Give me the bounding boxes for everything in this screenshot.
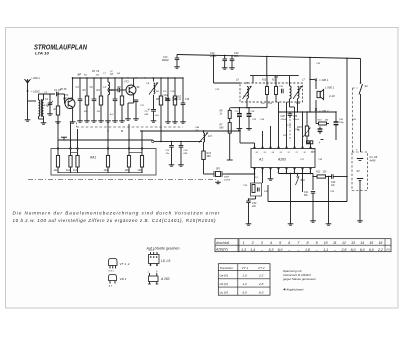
wire antenna to coil <box>28 100 37 102</box>
chain line <box>28 179 218 181</box>
drop rail to L6 <box>289 76 291 83</box>
table Transistor frame <box>218 264 270 296</box>
svg-text:VT 1: VT 1 <box>242 266 249 270</box>
svg-text:L 800 1: L 800 1 <box>325 86 335 90</box>
vertical x94 to y131 <box>93 119 95 131</box>
horizontal wire y112 <box>279 111 336 113</box>
svg-text:A1: A1 <box>258 158 263 162</box>
pin 5 bottom stub <box>286 168 288 174</box>
svg-text:8: 8 <box>306 241 308 245</box>
capacitor C23 elco <box>238 108 240 114</box>
junction dot on left bus <box>160 77 161 78</box>
dot bus x347 junctions <box>346 144 348 146</box>
wire terminal to speaker <box>315 80 317 90</box>
wire into x203 from y131 <box>203 131 205 133</box>
svg-text:1,3: 1,3 <box>241 248 246 252</box>
svg-text:Transistor: Transistor <box>220 266 234 270</box>
svg-text:Uʙ [V]: Uʙ [V] <box>220 274 229 278</box>
table Transistor row line <box>218 269 270 271</box>
pin 7 bottom stub <box>302 168 304 193</box>
table Transistor row line <box>218 286 270 288</box>
wire L5 down <box>246 99 248 108</box>
svg-text:1,2: 1,2 <box>243 282 248 286</box>
table Transistor row line <box>218 278 270 280</box>
svg-text:5: 5 <box>279 241 281 245</box>
pin 8 bottom stub <box>310 168 312 174</box>
wire x328 to ground <box>328 177 330 223</box>
battery dashed box <box>352 152 368 191</box>
svg-text:E B C: E B C <box>109 271 115 273</box>
vertical drop x175 <box>174 78 176 96</box>
resistor R24 in box <box>107 148 109 150</box>
svg-text:1k4: 1k4 <box>104 169 109 172</box>
svg-text:R18: R18 <box>274 77 279 79</box>
resistor R13 <box>203 142 205 151</box>
capacitor C6 <box>93 78 95 99</box>
svg-text:S1: S1 <box>365 84 369 88</box>
capacitor C38 mark <box>307 141 310 144</box>
wire x122 y119-131 <box>121 119 123 131</box>
pin 11 top stub <box>294 107 296 149</box>
svg-text:Die Nummern der Bauelementebez: Die Nummern der Bauelementebezeichnung s… <box>13 211 221 216</box>
box bottom rail <box>58 171 142 173</box>
pin 16 top stub <box>254 143 256 149</box>
svg-text:RA1: RA1 <box>90 156 96 160</box>
resistor R26 in box <box>141 148 143 150</box>
svg-text:C38: C38 <box>293 116 298 118</box>
supply bus top <box>177 55 361 59</box>
svg-text:VD1: VD1 <box>164 95 169 97</box>
junction dots IF top <box>246 82 247 83</box>
svg-text:C41: C41 <box>304 191 309 194</box>
svg-text:13: 13 <box>351 241 355 245</box>
resistor R5 <box>121 78 123 96</box>
junction dot on left bus <box>121 77 122 78</box>
resistor R22 in box <box>70 148 72 150</box>
svg-text:11: 11 <box>333 241 337 245</box>
svg-text:A K: A K <box>108 285 113 288</box>
svg-text:22n: 22n <box>251 205 257 208</box>
svg-text:≈ 100/2: ≈ 100/2 <box>31 90 40 94</box>
resistor R4 <box>100 78 102 96</box>
wire bus y131 <box>140 130 240 132</box>
svg-text:1: 1 <box>243 241 245 245</box>
svg-text:14: 14 <box>360 241 364 245</box>
svg-text:9V: 9V <box>357 169 360 173</box>
diode VD1 <box>161 93 164 95</box>
pin 10 top stub <box>302 112 304 149</box>
svg-text:1,1: 1,1 <box>323 248 328 252</box>
pin 13 top stub <box>278 102 280 149</box>
svg-text:1 2 3: 1 2 3 <box>149 249 155 252</box>
svg-text:VT2: VT2 <box>124 80 129 84</box>
svg-text:3: 3 <box>261 241 263 245</box>
drop rail to R10 <box>266 76 268 83</box>
resistor R3 <box>86 78 88 96</box>
junction dot on left bus <box>167 77 168 78</box>
feedback loop R16 C33 <box>251 183 262 196</box>
wire bus2 drop x266 <box>266 56 267 57</box>
junction dot on left bus <box>144 77 145 78</box>
resistor R8 stack top <box>229 108 231 111</box>
svg-text:SF: SF <box>137 86 141 89</box>
tuned coil L5 <box>247 87 249 99</box>
resistor R23 in box <box>77 148 79 150</box>
dashed box IF transformers <box>240 83 303 102</box>
svg-text:10 b.z.w. 100 auf vierstellige: 10 b.z.w. 100 auf vierstellige Ziffern z… <box>13 218 217 223</box>
table Anschluss last col <box>384 239 386 252</box>
junction dot on left bus <box>114 77 115 78</box>
svg-text:A283(V): A283(V) <box>215 248 228 252</box>
svg-text:L8, L9: L8, L9 <box>161 259 170 263</box>
mechanical dashed link <box>352 88 354 152</box>
svg-text:1,6: 1,6 <box>243 274 248 278</box>
svg-text:9: 9 <box>316 241 318 245</box>
wire VT2 base <box>120 89 126 91</box>
rail y75.6 over IF box <box>250 75 299 77</box>
drop rail to R11 <box>275 76 277 83</box>
wire VT1 collector up <box>72 78 74 100</box>
svg-text:C20: C20 <box>234 52 239 55</box>
svg-text:6,0: 6,0 <box>243 290 248 294</box>
table Transistor col divider <box>237 264 239 296</box>
svg-text:(V): (V) <box>386 248 389 251</box>
wire pin8 to output <box>312 174 314 177</box>
coil L3 <box>107 78 109 82</box>
svg-text:Anschluß: Anschluß <box>215 241 229 245</box>
wire output node right <box>342 176 347 178</box>
svg-text:220n: 220n <box>233 56 240 58</box>
svg-text:6,0: 6,0 <box>259 290 264 294</box>
wire pin1 to loop <box>254 168 256 175</box>
vertical drop x168 <box>167 78 169 99</box>
svg-text:600pF: 600pF <box>162 59 169 62</box>
svg-text:LTA 10: LTA 10 <box>35 52 50 56</box>
svg-text:+: + <box>319 141 321 145</box>
pin 9 top stub <box>310 143 312 149</box>
wire VT1 emitter down <box>72 107 74 120</box>
capacitor C10 emitter <box>134 99 139 101</box>
coil L6 <box>290 86 292 99</box>
horizontal wire y140 <box>58 139 153 141</box>
svg-text:10: 10 <box>324 241 328 245</box>
resistor R7 stack bottom <box>229 119 231 123</box>
junction dot on left bus <box>79 77 80 78</box>
svg-text:≈ 200-1: ≈ 200-1 <box>31 76 40 80</box>
bottom rail y201 <box>268 201 347 203</box>
svg-text:10700: 10700 <box>224 180 231 182</box>
capacitor C13 to ground <box>176 55 178 59</box>
capacitor C30 elco <box>319 127 321 130</box>
svg-text:15: 15 <box>369 241 373 245</box>
svg-text:4×R6: 4×R6 <box>370 160 376 163</box>
ground under filter <box>217 178 219 181</box>
resistor R12 output <box>317 175 326 178</box>
svg-text:48 30: 48 30 <box>60 88 67 91</box>
capacitor C20 <box>231 55 232 56</box>
rail y173.5 under IC <box>279 173 314 175</box>
svg-text:× 100 1: × 100 1 <box>319 78 329 82</box>
svg-text:480: 480 <box>207 155 212 158</box>
wire x291 to ground <box>290 174 292 223</box>
svg-text:+: + <box>356 148 358 152</box>
svg-text:R3 C6: R3 C6 <box>92 71 100 73</box>
svg-text:✱ Abgleichwert: ✱ Abgleichwert <box>283 288 304 292</box>
trimmer C1 <box>48 102 53 104</box>
svg-text:1,4: 1,4 <box>250 248 255 252</box>
table Anschluss frame <box>215 239 391 252</box>
ground pin3 <box>270 177 272 179</box>
svg-text:2-10: 2-10 <box>328 94 335 98</box>
capacitor C2 <box>56 92 58 97</box>
junction dot on left bus <box>93 77 94 78</box>
pinout A283 package <box>149 276 159 282</box>
resistor R1 at base <box>56 106 59 115</box>
battery to ground <box>359 181 361 220</box>
svg-text:R10: R10 <box>262 80 267 82</box>
svg-text:6: 6 <box>288 241 290 245</box>
junction dots y131 <box>121 130 122 131</box>
svg-text:C40: C40 <box>331 181 336 184</box>
junction dot on left bus <box>107 77 108 78</box>
wire pot top to y112 <box>306 112 308 122</box>
svg-text:1k1: 1k1 <box>54 169 59 172</box>
junction dot on left bus <box>127 77 128 78</box>
ground under antenna coil <box>27 101 29 118</box>
coil L1 primary <box>39 100 40 116</box>
dashed line y127 <box>77 126 184 128</box>
wire VT2 emitter <box>133 94 135 103</box>
junction dot on left bus <box>100 77 101 78</box>
pot RP1 body <box>315 111 317 113</box>
dashed pot link <box>289 119 291 141</box>
svg-text:1k5: 1k5 <box>125 169 130 172</box>
svg-text:2,2: 2,2 <box>258 274 264 278</box>
dashed link corner <box>353 87 358 89</box>
IC A1 A283 box <box>251 149 315 168</box>
pin 4 bottom stub <box>278 168 280 174</box>
junction dot on left bus <box>174 77 175 78</box>
battery cells G1-G6 <box>360 152 362 158</box>
diode pair VD1 VD2 <box>166 98 169 101</box>
svg-text:C16: C16 <box>185 99 190 101</box>
cap to ground x64 <box>63 140 65 143</box>
svg-text:500F: 500F <box>224 177 230 179</box>
wire x268 loop to bottom rail <box>267 185 269 202</box>
svg-text:VT 2: VT 2 <box>258 266 265 270</box>
pin 6 bottom stub <box>294 168 296 174</box>
svg-text:2: 2 <box>251 241 254 245</box>
wire L6 down <box>289 102 291 107</box>
wire pot wiper to IC <box>306 142 308 144</box>
svg-text:VD 1: VD 1 <box>120 277 127 281</box>
wire R10 down to y107 <box>266 102 268 108</box>
svg-text:Uᴇ [V]: Uᴇ [V] <box>220 282 228 286</box>
IF bus y83 <box>214 82 241 84</box>
wire bus2 drop x213 <box>213 55 214 56</box>
capacitor C50 <box>180 141 182 145</box>
pinout L8 L9 box <box>149 255 160 264</box>
bus left y78 <box>73 77 183 79</box>
capacitor C24 elco <box>248 108 250 114</box>
transistor VT1 <box>65 99 75 109</box>
junction dot on left bus <box>135 77 136 78</box>
ceramic filter SF1 <box>213 171 215 177</box>
svg-text:6,0: 6,0 <box>351 248 356 252</box>
dashed corner <box>76 123 78 128</box>
svg-text:VT 1, 2: VT 1, 2 <box>120 262 130 266</box>
wire pin15 to y131 bus <box>261 130 263 132</box>
svg-text:4: 4 <box>270 241 272 245</box>
junction dot on left bus <box>152 77 153 78</box>
wires into box top <box>57 122 59 149</box>
capacitor C42 elco <box>335 112 337 122</box>
svg-text:SF 245: SF 245 <box>63 97 72 101</box>
svg-text:gegen Masse gemessen: gegen Masse gemessen <box>283 277 316 281</box>
resistor R11 in box <box>275 83 277 87</box>
wire coil bottom <box>39 118 44 120</box>
pin 3 bottom stub <box>270 168 272 178</box>
svg-text:SF1: SF1 <box>216 169 221 171</box>
wire pin13 pin12 to IF box bottom <box>278 101 280 103</box>
capacitor C41 to ground <box>312 177 314 191</box>
capacitor C34 <box>246 200 250 202</box>
wire pot bottom down <box>306 140 308 143</box>
svg-text:100μ: 100μ <box>339 122 345 124</box>
resistor R19 <box>319 122 327 125</box>
drop rail to L5 <box>252 76 254 83</box>
switch S1 <box>360 59 362 84</box>
svg-text:1k3: 1k3 <box>73 169 78 172</box>
svg-text:Bu1: Bu1 <box>301 179 306 182</box>
dashed box RA1 <box>51 149 156 176</box>
wire coil top to C2 <box>43 94 45 97</box>
vertical drop x161 <box>160 78 162 96</box>
capacitor C22 in box <box>281 89 283 94</box>
svg-text:1k2: 1k2 <box>66 169 71 172</box>
wire filter to IC pin1 <box>226 173 255 175</box>
speaker B1 <box>317 91 320 97</box>
svg-text:R12: R12 <box>316 172 321 174</box>
table Anschluss header divider <box>237 239 239 252</box>
varicap coil L10 <box>204 133 205 142</box>
capacitor C28 <box>289 112 291 114</box>
resistor R25 in box <box>128 148 130 150</box>
svg-text:6,0: 6,0 <box>360 248 365 252</box>
wire loop bottom to C34 <box>255 196 257 199</box>
capacitor C8 <box>114 78 116 99</box>
svg-text:2,2: 2,2 <box>377 248 383 252</box>
pin 14 top stub <box>270 126 272 149</box>
coil L1 secondary <box>42 100 43 116</box>
wire pin16 to x240 region <box>240 142 255 144</box>
wire box right x154 <box>153 140 155 148</box>
wire base VT1 <box>62 93 65 95</box>
terminal x100-1 <box>315 78 317 80</box>
svg-text:1k6: 1k6 <box>138 169 143 172</box>
resistor R21 in box <box>57 148 59 150</box>
resistor pair bridges <box>71 152 78 154</box>
wire L7 down to y112 <box>297 99 299 113</box>
vertical drop x183 <box>182 78 184 103</box>
svg-text:2,8: 2,8 <box>258 282 264 286</box>
svg-text:2,8: 2,8 <box>340 248 346 252</box>
pin 15 top stub <box>262 131 264 149</box>
svg-text:220nF: 220nF <box>292 119 300 121</box>
svg-text:16: 16 <box>378 241 382 245</box>
svg-text:6,0: 6,0 <box>278 248 283 252</box>
antenna W1 <box>27 79 29 86</box>
horizontal wire y107 <box>230 107 267 109</box>
transistor VT2 <box>126 85 136 95</box>
case VD1 <box>109 275 117 281</box>
junction dot on left bus <box>86 77 87 78</box>
wire R12 to C40 <box>326 176 332 178</box>
svg-text:5,3: 5,3 <box>268 248 273 252</box>
jack Bu1 <box>297 174 299 177</box>
svg-text:Uᴌ [V]: Uᴌ [V] <box>220 291 228 295</box>
case VT 1 2 <box>109 259 118 266</box>
wire terminal2 down <box>315 110 317 113</box>
capacitor C19 <box>224 55 225 56</box>
capacitor C4 <box>79 78 81 99</box>
wire y141 to varicap <box>161 140 202 142</box>
svg-text:1,8: 1,8 <box>305 248 310 252</box>
coil L4 oscillator <box>153 78 155 82</box>
pin 12 top stub <box>286 102 288 149</box>
svg-text:STROMLAUFPLAN: STROMLAUFPLAN <box>34 43 87 52</box>
terminal x100-2 <box>315 100 317 110</box>
tuned coil L7 <box>298 87 300 99</box>
resistor R10 in box <box>266 83 268 87</box>
capacitor C51 <box>171 141 173 145</box>
table Anschluss midline <box>215 244 391 246</box>
terminal circle box right <box>152 140 154 142</box>
svg-text:6,0: 6,0 <box>369 248 374 252</box>
junction dot on left bus <box>182 77 183 78</box>
capacitor C40h <box>331 174 333 179</box>
wire x347 to bottom rail <box>346 177 348 202</box>
svg-text:C19: C19 <box>210 52 215 55</box>
pin 2 bottom stub <box>262 168 264 184</box>
wire to ceramic filter <box>204 173 215 175</box>
wire bus2 drop x310 <box>309 57 310 58</box>
wire VT2 collector <box>133 78 135 86</box>
wire bus2 drop x347 <box>346 58 347 59</box>
svg-text:A283: A283 <box>277 158 286 162</box>
svg-text:12: 12 <box>342 241 346 245</box>
svg-text:× 100 2: × 100 2 <box>319 109 329 113</box>
svg-text:A 283: A 283 <box>160 277 170 281</box>
capacitor C12 <box>151 109 156 111</box>
pin 1 bottom stub <box>254 168 256 175</box>
svg-text:C28: C28 <box>281 116 286 118</box>
